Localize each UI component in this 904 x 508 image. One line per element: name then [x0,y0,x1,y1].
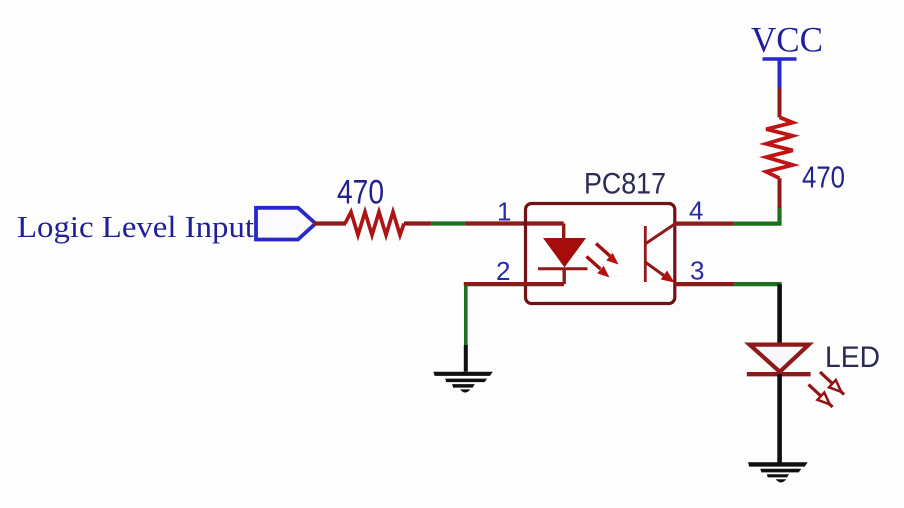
internal LED cathode drop wire [563,269,566,284]
svg-text:4: 4 [689,196,703,226]
wire pin2 to ground (green) [464,286,468,346]
svg-text:VCC: VCC [751,20,823,60]
ground stub (black) [464,345,468,372]
wire net segment (green) [432,221,465,225]
svg-text:PC817: PC817 [584,168,666,201]
internal LED anode drop wire [562,224,565,240]
phototransistor Q1 base line [644,226,647,282]
ground (bottom right) [748,462,808,482]
LED D2 triangle with anode bar top [750,345,809,372]
wire down to LED (black) [777,284,782,343]
wire R2 bottom lead (red) [778,178,782,208]
LED D2 cathode bar [747,372,811,376]
pin 2 wire (red) [464,282,564,286]
svg-text:2: 2 [496,256,510,286]
emission arrow 1 [596,244,619,265]
pin 3 wire (red) [675,282,735,286]
port symbol (input pentagon) [256,208,316,240]
svg-text:3: 3 [690,255,704,285]
phototransistor collector [646,224,675,244]
wire R2 top lead (red) [778,88,782,117]
wire port to R1 [314,221,346,225]
resistor R2 zigzag (vertical) [766,117,793,178]
internal LED D1 (filled triangle) [544,239,585,267]
internal LED cathode bar [538,267,588,270]
ground (left) [433,372,492,393]
LED emission arrow 2 [809,385,833,408]
emission arrow 2 [587,257,610,278]
pin 1 wire (red into box) [465,221,564,225]
wire R1 to pin1 (red segment) [404,221,432,225]
svg-text:LED: LED [825,341,880,374]
VCC stem (blue) [778,58,782,89]
wire LED to ground (black) [777,374,782,463]
power VCC bar [763,57,797,60]
resistor R1 zigzag [345,212,404,235]
svg-text:470: 470 [337,174,384,212]
optocoupler U1 body box [526,204,675,304]
svg-text:470: 470 [802,160,845,195]
LED emission arrow 1 [820,372,844,395]
phototransistor emitter arrowhead [661,271,675,283]
svg-text:Logic Level Input: Logic Level Input [17,209,254,244]
wire net pin4 to R2 (green) [734,207,780,224]
wire net pin3 to LED (green) [734,282,781,286]
pin 4 wire (red) [675,222,734,226]
svg-text:1: 1 [497,196,511,226]
phototransistor emitter [646,263,668,279]
